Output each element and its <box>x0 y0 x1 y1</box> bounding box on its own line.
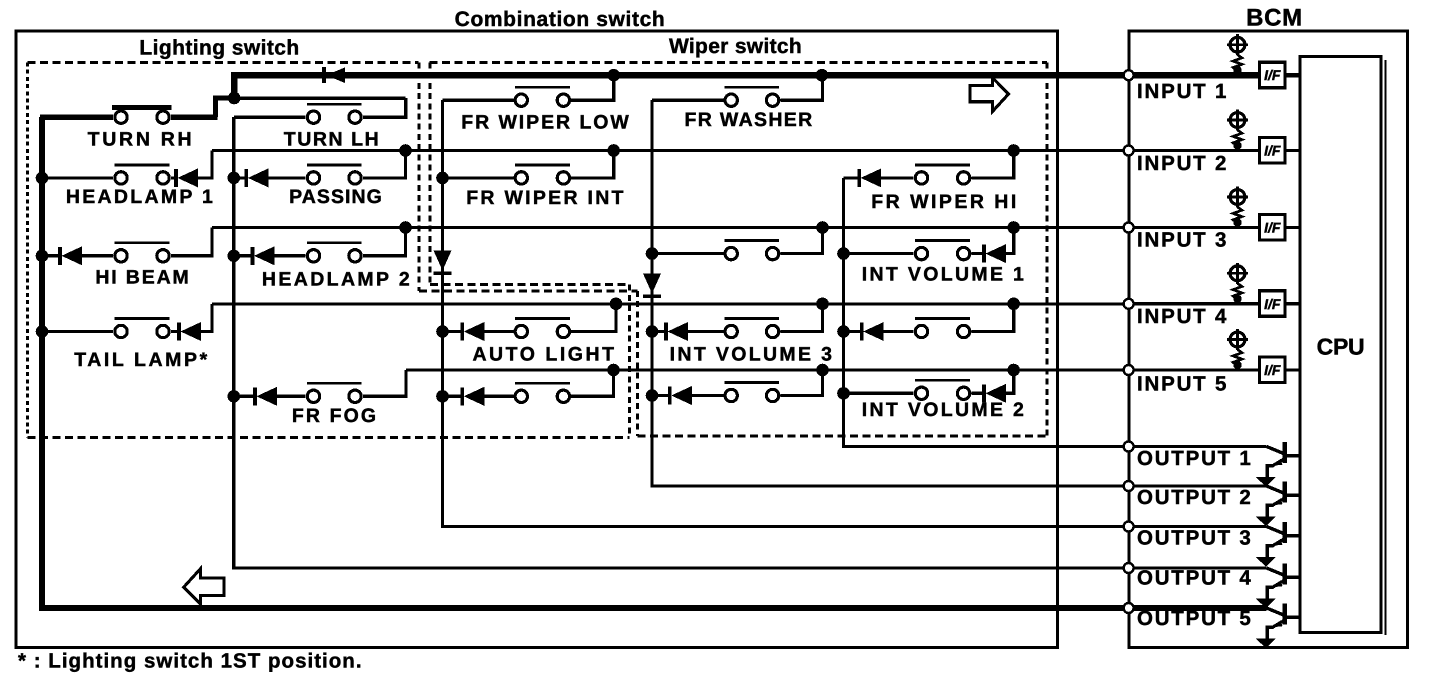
svg-text:I/F: I/F <box>1264 67 1281 83</box>
svg-text:Lighting switch: Lighting switch <box>139 36 299 59</box>
svg-text:OUTPUT 1: OUTPUT 1 <box>1137 447 1253 470</box>
svg-text:TAIL LAMP*: TAIL LAMP* <box>74 349 209 371</box>
svg-text:* : Lighting switch 1ST positi: * : Lighting switch 1ST position. <box>18 650 363 673</box>
svg-text:CPU: CPU <box>1317 334 1365 360</box>
svg-text:FR WIPER HI: FR WIPER HI <box>871 191 1019 213</box>
svg-text:HEADLAMP 1: HEADLAMP 1 <box>66 186 215 208</box>
svg-text:INPUT 1: INPUT 1 <box>1137 80 1228 103</box>
svg-text:I/F: I/F <box>1264 296 1281 312</box>
svg-text:FR WIPER INT: FR WIPER INT <box>466 187 626 209</box>
svg-text:Wiper switch: Wiper switch <box>669 35 802 58</box>
svg-text:Combination switch: Combination switch <box>455 8 666 31</box>
svg-text:INPUT 3: INPUT 3 <box>1137 229 1228 252</box>
svg-text:I/F: I/F <box>1264 220 1281 236</box>
svg-text:OUTPUT 3: OUTPUT 3 <box>1137 527 1253 550</box>
svg-text:TURN LH: TURN LH <box>284 129 381 151</box>
svg-text:INT VOLUME 2: INT VOLUME 2 <box>862 399 1026 421</box>
svg-text:OUTPUT 2: OUTPUT 2 <box>1137 486 1253 509</box>
svg-text:TURN RH: TURN RH <box>88 129 195 151</box>
svg-text:FR WASHER: FR WASHER <box>684 109 813 131</box>
svg-text:INPUT 2: INPUT 2 <box>1137 152 1228 175</box>
svg-text:I/F: I/F <box>1264 143 1281 159</box>
svg-text:INPUT 4: INPUT 4 <box>1137 305 1228 328</box>
svg-text:FR FOG: FR FOG <box>292 405 378 427</box>
svg-text:BCM: BCM <box>1246 4 1303 31</box>
svg-text:FR WIPER LOW: FR WIPER LOW <box>461 111 631 133</box>
svg-text:INT VOLUME 3: INT VOLUME 3 <box>670 343 835 365</box>
svg-text:OUTPUT 4: OUTPUT 4 <box>1137 567 1253 590</box>
svg-text:HEADLAMP 2: HEADLAMP 2 <box>262 268 412 290</box>
svg-text:OUTPUT 5: OUTPUT 5 <box>1137 607 1253 630</box>
svg-text:PASSING: PASSING <box>289 186 383 208</box>
svg-text:AUTO LIGHT: AUTO LIGHT <box>472 343 616 365</box>
svg-text:HI BEAM: HI BEAM <box>95 266 190 288</box>
svg-text:INPUT 5: INPUT 5 <box>1137 373 1228 396</box>
svg-text:INT VOLUME 1: INT VOLUME 1 <box>862 264 1026 286</box>
svg-text:I/F: I/F <box>1264 362 1281 378</box>
